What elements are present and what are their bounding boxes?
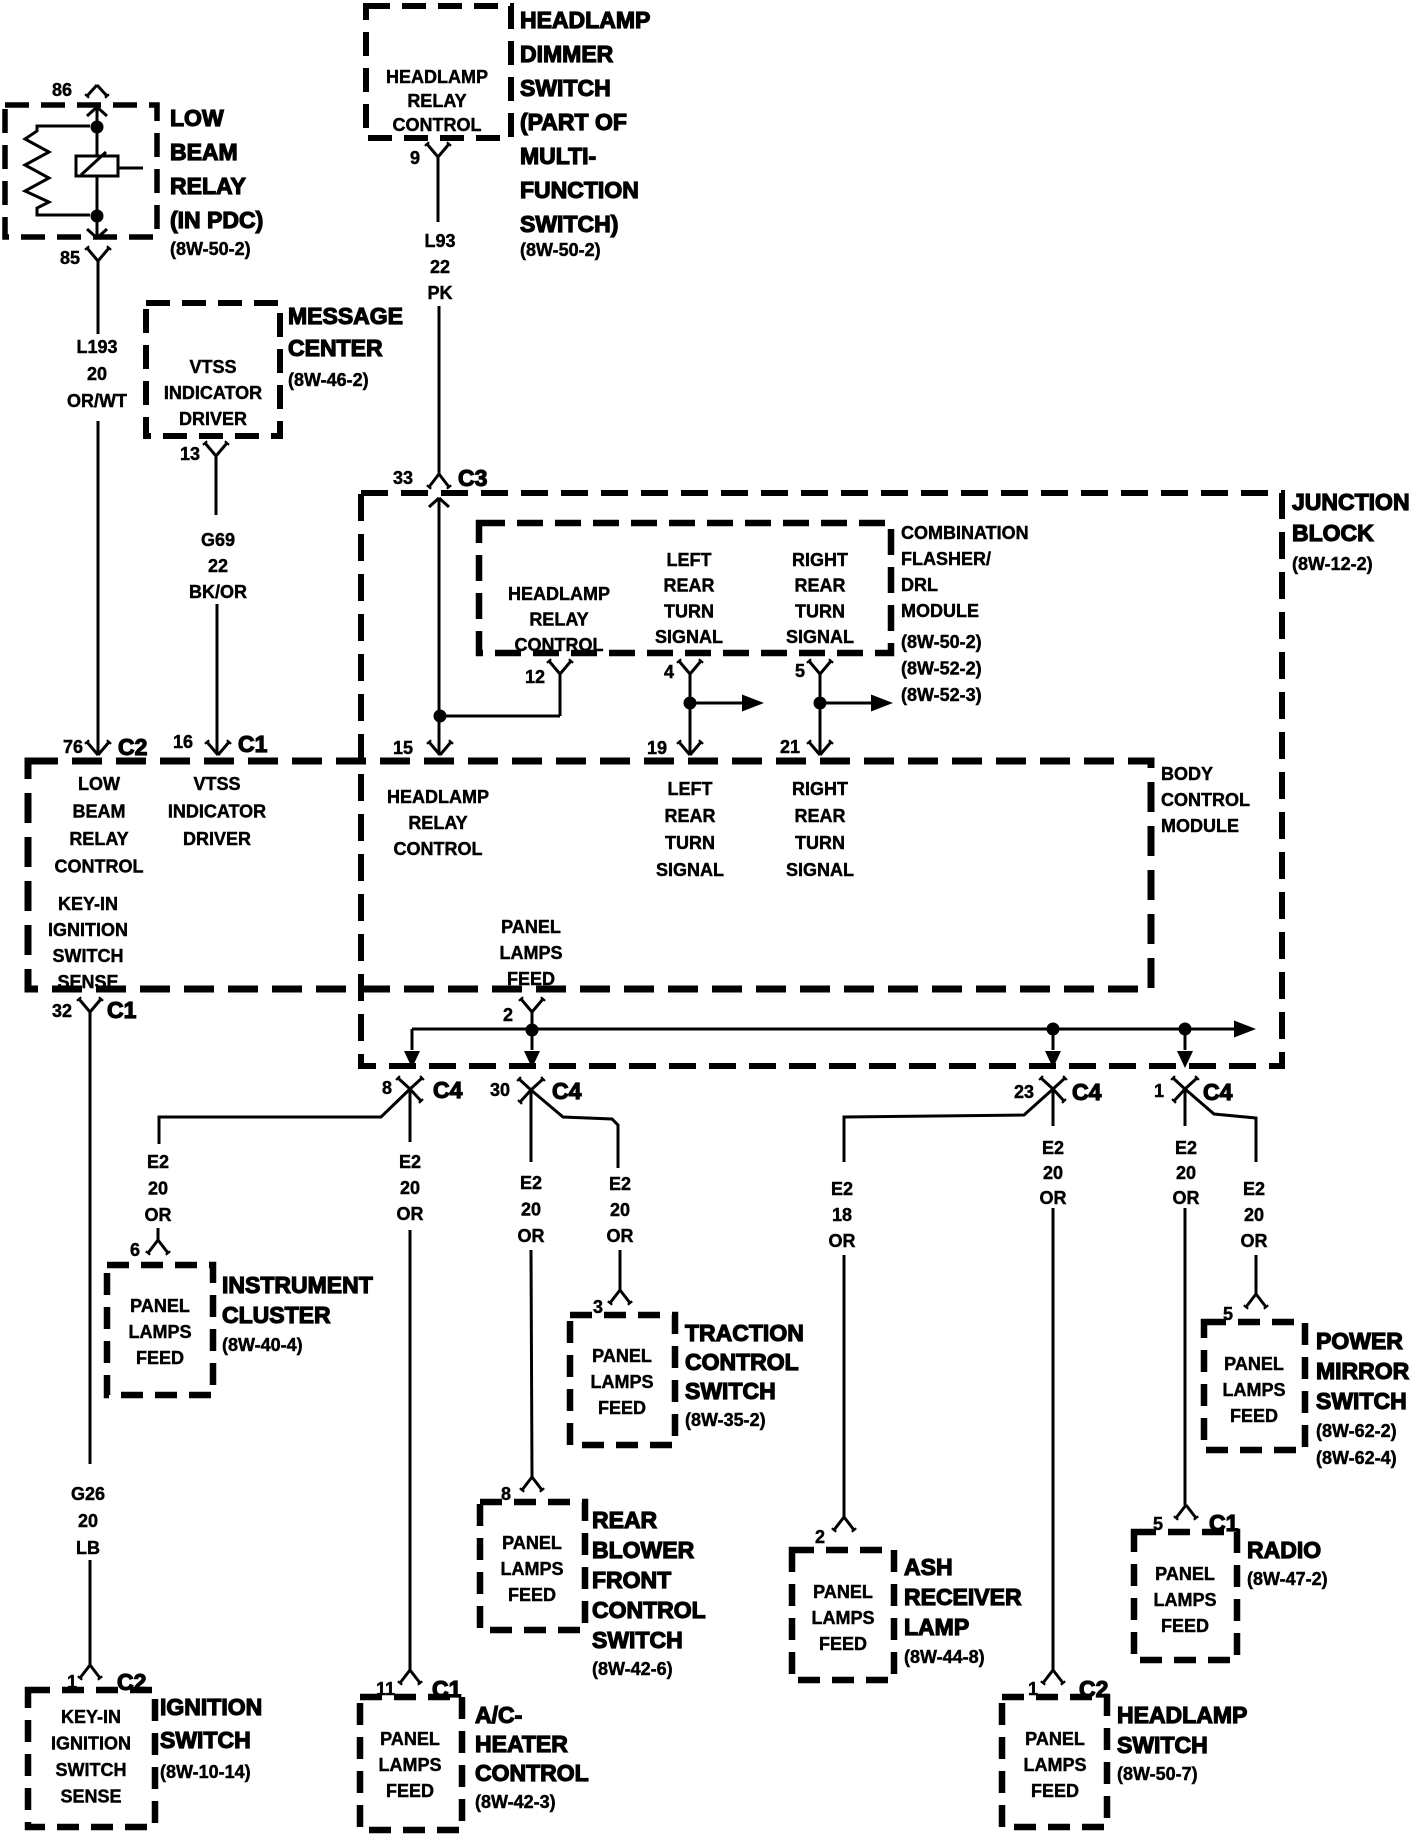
- connector 23 C4: [1041, 1078, 1053, 1089]
- svg-text:LAMPS: LAMPS: [1223, 1380, 1286, 1400]
- wire to BCM pin 15: [438, 498, 441, 753]
- svg-text:OR: OR: [1241, 1231, 1268, 1251]
- wire pin5 to pin 21: [819, 674, 822, 753]
- svg-text:32: 32: [52, 1001, 72, 1021]
- svg-text:19: 19: [647, 738, 667, 758]
- svg-text:LAMPS: LAMPS: [501, 1559, 564, 1579]
- key-in ignition switch sense box: [28, 1690, 155, 1827]
- svg-text:(8W-50-2): (8W-50-2): [520, 240, 601, 260]
- wire G26: [89, 1012, 92, 1464]
- svg-text:DIMMER: DIMMER: [520, 41, 614, 67]
- svg-text:OR: OR: [1173, 1188, 1200, 1208]
- low beam relay box: [5, 105, 157, 237]
- svg-text:RELAY: RELAY: [529, 610, 588, 630]
- svg-text:FEED: FEED: [508, 1585, 556, 1605]
- svg-text:BODY: BODY: [1161, 764, 1213, 784]
- svg-text:8: 8: [382, 1078, 392, 1098]
- svg-text:LAMPS: LAMPS: [500, 943, 563, 963]
- svg-text:VTSS: VTSS: [189, 357, 236, 377]
- connector 8 fork (rear blower): [522, 1477, 532, 1490]
- pin 21 connector: [809, 742, 820, 755]
- connector 86 chevron: [87, 85, 97, 96]
- svg-text:20: 20: [1043, 1163, 1063, 1183]
- svg-text:SWITCH: SWITCH: [53, 946, 124, 966]
- svg-text:(8W-50-2): (8W-50-2): [901, 632, 982, 652]
- panel lamps feed bus wire: [531, 1012, 534, 1050]
- svg-text:LOW: LOW: [78, 774, 120, 794]
- svg-text:LAMPS: LAMPS: [1024, 1755, 1087, 1775]
- wire pin4 to pin 19: [689, 674, 692, 753]
- connector 12 fork: [549, 661, 560, 674]
- arrow into relay (pin 86): [87, 107, 97, 116]
- svg-text:DRIVER: DRIVER: [179, 409, 247, 429]
- svg-text:LEFT: LEFT: [667, 550, 712, 570]
- connector C3 fork: [429, 474, 439, 487]
- svg-text:16: 16: [173, 732, 193, 752]
- svg-text:SIGNAL: SIGNAL: [786, 860, 854, 880]
- svg-text:(8W-42-6): (8W-42-6): [592, 1659, 673, 1679]
- svg-text:SWITCH: SWITCH: [56, 1760, 127, 1780]
- connector 30 C4: [519, 1079, 531, 1090]
- svg-text:LAMPS: LAMPS: [591, 1372, 654, 1392]
- svg-text:RELAY: RELAY: [69, 829, 128, 849]
- svg-text:23: 23: [1014, 1082, 1034, 1102]
- pin 16 connector: [207, 742, 218, 755]
- svg-text:LEFT: LEFT: [668, 779, 713, 799]
- svg-text:HEADLAMP: HEADLAMP: [520, 7, 650, 33]
- svg-text:PANEL: PANEL: [1025, 1729, 1085, 1749]
- wire L93: [437, 157, 440, 222]
- junction dot: [434, 710, 447, 723]
- svg-text:E2: E2: [520, 1173, 542, 1193]
- svg-text:MULTI-: MULTI-: [520, 143, 596, 169]
- svg-text:(8W-50-7): (8W-50-7): [1117, 1764, 1198, 1784]
- pin 5 connector: [809, 661, 820, 674]
- svg-text:4: 4: [664, 662, 674, 682]
- svg-text:OR: OR: [518, 1226, 545, 1246]
- svg-text:ASH: ASH: [904, 1554, 953, 1580]
- svg-text:(8W-62-2): (8W-62-2): [1316, 1421, 1397, 1441]
- svg-text:RADIO: RADIO: [1247, 1537, 1321, 1563]
- svg-text:RELAY: RELAY: [408, 813, 467, 833]
- svg-text:DRIVER: DRIVER: [183, 829, 251, 849]
- svg-text:OR: OR: [397, 1204, 424, 1224]
- svg-text:85: 85: [60, 248, 80, 268]
- wire G69: [215, 456, 218, 515]
- svg-text:3: 3: [593, 1297, 603, 1317]
- svg-text:INDICATOR: INDICATOR: [164, 383, 262, 403]
- svg-text:LAMPS: LAMPS: [379, 1755, 442, 1775]
- svg-text:12: 12: [525, 667, 545, 687]
- svg-text:20: 20: [610, 1200, 630, 1220]
- svg-text:(8W-40-4): (8W-40-4): [222, 1335, 303, 1355]
- connector 1 C2 fork: [80, 1665, 90, 1678]
- junction block box: [361, 493, 1282, 1066]
- svg-text:HEADLAMP: HEADLAMP: [1117, 1702, 1247, 1728]
- svg-text:86: 86: [52, 80, 72, 100]
- svg-text:SIGNAL: SIGNAL: [786, 627, 854, 647]
- svg-text:L193: L193: [76, 337, 117, 357]
- svg-text:E2: E2: [609, 1174, 631, 1194]
- svg-text:13: 13: [180, 444, 200, 464]
- svg-text:SWITCH): SWITCH): [520, 211, 618, 237]
- pin 19 connector: [679, 742, 690, 755]
- svg-text:E2: E2: [1175, 1138, 1197, 1158]
- arrow out of relay (pin 85): [96, 222, 99, 238]
- svg-text:E2: E2: [1243, 1179, 1265, 1199]
- svg-text:6: 6: [130, 1240, 140, 1260]
- svg-text:PANEL: PANEL: [130, 1296, 190, 1316]
- arrow into junction block: [429, 498, 439, 507]
- arrow right rear turn signal feed: [820, 702, 871, 705]
- svg-text:PANEL: PANEL: [813, 1582, 873, 1602]
- svg-text:TURN: TURN: [795, 833, 845, 853]
- svg-text:76: 76: [63, 737, 83, 757]
- svg-text:(8W-44-8): (8W-44-8): [904, 1647, 985, 1667]
- svg-text:TURN: TURN: [795, 601, 845, 621]
- wire E2 to rear blower: [530, 1090, 533, 1162]
- svg-text:MODULE: MODULE: [901, 601, 979, 621]
- svg-text:BK/OR: BK/OR: [189, 582, 247, 602]
- connector 1 C2 fork (headlamp switch): [1043, 1670, 1053, 1683]
- pin 76 connector: [87, 742, 98, 755]
- svg-text:20: 20: [78, 1511, 98, 1531]
- svg-text:LAMP: LAMP: [904, 1614, 969, 1640]
- svg-text:HEADLAMP: HEADLAMP: [386, 67, 488, 87]
- connector 5 C1 fork (radio): [1176, 1505, 1186, 1518]
- svg-text:OR: OR: [1040, 1188, 1067, 1208]
- svg-text:G26: G26: [71, 1484, 105, 1504]
- svg-text:RIGHT: RIGHT: [792, 779, 848, 799]
- svg-text:C1: C1: [107, 997, 137, 1023]
- svg-text:KEY-IN: KEY-IN: [58, 894, 118, 914]
- svg-text:(8W-47-2): (8W-47-2): [1247, 1569, 1328, 1589]
- svg-text:15: 15: [393, 738, 413, 758]
- a/c heater panel lamps feed box: [360, 1697, 462, 1830]
- svg-text:FEED: FEED: [1161, 1616, 1209, 1636]
- svg-text:SWITCH: SWITCH: [592, 1627, 683, 1653]
- wire to instrument cluster: [159, 1089, 410, 1144]
- connector 3 fork: [610, 1290, 620, 1303]
- svg-text:LAMPS: LAMPS: [1154, 1590, 1217, 1610]
- pin 2 connector: [521, 999, 532, 1012]
- svg-text:FEED: FEED: [1230, 1406, 1278, 1426]
- traction control panel lamps feed box: [570, 1315, 675, 1445]
- svg-text:A/C-: A/C-: [475, 1702, 522, 1728]
- svg-text:L93: L93: [424, 231, 455, 251]
- svg-text:(8W-62-4): (8W-62-4): [1316, 1448, 1397, 1468]
- svg-text:E2: E2: [1042, 1138, 1064, 1158]
- svg-text:OR: OR: [829, 1231, 856, 1251]
- svg-text:IGNITION: IGNITION: [160, 1694, 262, 1720]
- svg-text:(PART OF: (PART OF: [520, 109, 627, 135]
- svg-text:PANEL: PANEL: [501, 917, 561, 937]
- node dot lower: [91, 210, 104, 223]
- connector 85 fork: [87, 248, 98, 261]
- svg-text:CONTROL: CONTROL: [515, 635, 604, 655]
- svg-text:SENSE: SENSE: [57, 972, 118, 992]
- svg-text:BEAM: BEAM: [170, 139, 238, 165]
- svg-text:TRACTION: TRACTION: [685, 1320, 804, 1346]
- svg-text:2: 2: [503, 1005, 513, 1025]
- svg-text:(8W-52-2): (8W-52-2): [901, 659, 982, 679]
- svg-text:E2: E2: [147, 1152, 169, 1172]
- svg-text:FRONT: FRONT: [592, 1567, 671, 1593]
- rear blower panel lamps feed box: [480, 1502, 585, 1630]
- svg-text:MODULE: MODULE: [1161, 816, 1239, 836]
- svg-text:OR: OR: [607, 1226, 634, 1246]
- svg-text:REAR: REAR: [663, 576, 714, 596]
- connector 13 fork: [205, 443, 216, 456]
- svg-text:C4: C4: [433, 1077, 463, 1103]
- svg-text:(8W-12-2): (8W-12-2): [1292, 554, 1373, 574]
- svg-text:PANEL: PANEL: [380, 1729, 440, 1749]
- svg-text:(8W-50-2): (8W-50-2): [170, 239, 251, 259]
- resistor (relay shunt): [25, 126, 90, 215]
- svg-text:E2: E2: [399, 1152, 421, 1172]
- svg-text:FEED: FEED: [819, 1634, 867, 1654]
- svg-text:22: 22: [430, 257, 450, 277]
- svg-text:C4: C4: [1203, 1079, 1233, 1105]
- wire: [96, 133, 99, 156]
- svg-text:BEAM: BEAM: [73, 802, 126, 822]
- headlamp dimmer switch box: [366, 6, 511, 138]
- svg-text:CONTROL: CONTROL: [592, 1597, 706, 1623]
- power mirror panel lamps feed box: [1204, 1322, 1305, 1450]
- svg-text:CENTER: CENTER: [288, 335, 383, 361]
- svg-text:REAR: REAR: [664, 806, 715, 826]
- svg-text:POWER: POWER: [1316, 1328, 1403, 1354]
- svg-text:CONTROL: CONTROL: [55, 857, 144, 877]
- svg-text:RIGHT: RIGHT: [792, 550, 848, 570]
- wire E2 to radio: [1184, 1089, 1187, 1126]
- svg-text:C3: C3: [458, 465, 487, 491]
- svg-text:CONTROL: CONTROL: [393, 115, 482, 135]
- headlamp switch panel lamps feed box: [1002, 1697, 1107, 1827]
- instrument cluster panel lamps feed box: [107, 1265, 213, 1395]
- svg-text:SWITCH: SWITCH: [1117, 1732, 1208, 1758]
- wire L193: [97, 261, 100, 334]
- svg-text:CONTROL: CONTROL: [685, 1349, 799, 1375]
- svg-text:(8W-52-3): (8W-52-3): [901, 685, 982, 705]
- svg-text:20: 20: [87, 364, 107, 384]
- svg-text:MESSAGE: MESSAGE: [288, 303, 403, 329]
- svg-text:PANEL: PANEL: [1155, 1564, 1215, 1584]
- svg-text:20: 20: [1176, 1163, 1196, 1183]
- svg-text:HEADLAMP: HEADLAMP: [387, 787, 489, 807]
- connector 1 C4: [1173, 1078, 1185, 1089]
- radio panel lamps feed box: [1134, 1532, 1237, 1660]
- connector 6 fork: [148, 1240, 158, 1253]
- svg-text:REAR: REAR: [794, 806, 845, 826]
- wire E2 to power mirror: [1185, 1089, 1256, 1162]
- svg-text:MIRROR: MIRROR: [1316, 1358, 1410, 1384]
- svg-text:TURN: TURN: [664, 601, 714, 621]
- svg-text:LAMPS: LAMPS: [812, 1608, 875, 1628]
- svg-text:INDICATOR: INDICATOR: [168, 802, 266, 822]
- svg-text:SWITCH: SWITCH: [160, 1727, 251, 1753]
- svg-text:E2: E2: [831, 1179, 853, 1199]
- svg-text:C2: C2: [118, 734, 147, 760]
- connector 2 fork (ash): [834, 1517, 844, 1530]
- pin 4 connector: [679, 661, 690, 674]
- svg-text:G69: G69: [201, 530, 235, 550]
- svg-text:OR/WT: OR/WT: [67, 391, 127, 411]
- svg-text:FEED: FEED: [598, 1398, 646, 1418]
- svg-text:REAR: REAR: [794, 576, 845, 596]
- svg-text:RELAY: RELAY: [170, 173, 246, 199]
- svg-text:DRL: DRL: [901, 575, 938, 595]
- svg-text:(8W-35-2): (8W-35-2): [685, 1410, 766, 1430]
- svg-text:2: 2: [815, 1527, 825, 1547]
- svg-text:SIGNAL: SIGNAL: [656, 860, 724, 880]
- svg-text:SWITCH: SWITCH: [685, 1378, 776, 1404]
- svg-text:VTSS: VTSS: [193, 774, 240, 794]
- svg-text:IGNITION: IGNITION: [48, 920, 128, 940]
- wire to pin 12: [440, 715, 560, 718]
- svg-text:SWITCH: SWITCH: [1316, 1388, 1407, 1414]
- svg-text:LAMPS: LAMPS: [129, 1322, 192, 1342]
- svg-text:5: 5: [795, 661, 805, 681]
- svg-text:(IN PDC): (IN PDC): [170, 207, 263, 233]
- combination flasher / drl module box: [479, 523, 891, 653]
- svg-text:HEADLAMP: HEADLAMP: [508, 584, 610, 604]
- svg-text:CONTROL: CONTROL: [394, 839, 483, 859]
- arrow left rear turn signal feed: [690, 702, 742, 705]
- svg-text:33: 33: [393, 468, 413, 488]
- pin 32 connector: [79, 999, 90, 1012]
- svg-text:SIGNAL: SIGNAL: [655, 627, 723, 647]
- svg-text:FUNCTION: FUNCTION: [520, 177, 639, 203]
- svg-text:8: 8: [501, 1484, 511, 1504]
- svg-text:22: 22: [208, 556, 228, 576]
- svg-text:CLUSTER: CLUSTER: [222, 1302, 331, 1328]
- svg-text:(8W-46-2): (8W-46-2): [288, 370, 369, 390]
- svg-text:OR: OR: [145, 1205, 172, 1225]
- svg-text:9: 9: [410, 148, 420, 168]
- svg-text:C4: C4: [1072, 1079, 1102, 1105]
- svg-text:PANEL: PANEL: [502, 1533, 562, 1553]
- ash receiver panel lamps feed box: [792, 1550, 894, 1680]
- svg-text:PANEL: PANEL: [1224, 1354, 1284, 1374]
- wire E2 to traction control: [531, 1090, 618, 1168]
- svg-text:INSTRUMENT: INSTRUMENT: [222, 1272, 373, 1298]
- svg-text:SENSE: SENSE: [60, 1787, 121, 1807]
- connector 11 C1 fork: [400, 1670, 410, 1683]
- relay coil K1: [76, 156, 118, 176]
- connector 8 C4: [398, 1078, 410, 1089]
- svg-text:JUNCTION: JUNCTION: [1292, 489, 1410, 515]
- svg-text:21: 21: [780, 737, 800, 757]
- svg-text:20: 20: [521, 1200, 541, 1220]
- svg-text:FEED: FEED: [136, 1348, 184, 1368]
- svg-text:C1: C1: [238, 731, 268, 757]
- svg-text:REAR: REAR: [592, 1507, 658, 1533]
- vtss indicator driver box: [146, 303, 280, 436]
- svg-text:1: 1: [1154, 1081, 1164, 1101]
- pin 15 connector: [429, 742, 440, 755]
- svg-text:LB: LB: [76, 1538, 100, 1558]
- wire E2 to a/c heater: [409, 1089, 412, 1142]
- svg-text:HEATER: HEATER: [475, 1731, 568, 1757]
- svg-text:COMBINATION: COMBINATION: [901, 523, 1029, 543]
- svg-text:(8W-10-14): (8W-10-14): [160, 1762, 251, 1782]
- svg-text:20: 20: [148, 1179, 168, 1199]
- svg-text:30: 30: [490, 1080, 510, 1100]
- svg-text:RELAY: RELAY: [407, 91, 466, 111]
- connector 9 fork: [427, 144, 438, 157]
- wire: [96, 176, 99, 210]
- svg-text:PANEL: PANEL: [592, 1346, 652, 1366]
- svg-text:SWITCH: SWITCH: [520, 75, 611, 101]
- svg-text:LOW: LOW: [170, 105, 224, 131]
- svg-text:FEED: FEED: [507, 969, 555, 989]
- svg-text:CONTROL: CONTROL: [1161, 790, 1250, 810]
- svg-text:20: 20: [1244, 1205, 1264, 1225]
- svg-text:CONTROL: CONTROL: [475, 1760, 589, 1786]
- svg-text:FLASHER/: FLASHER/: [901, 549, 991, 569]
- svg-text:RECEIVER: RECEIVER: [904, 1584, 1022, 1610]
- svg-text:TURN: TURN: [665, 833, 715, 853]
- body control module box: [28, 761, 1151, 989]
- svg-text:BLOCK: BLOCK: [1292, 520, 1374, 546]
- svg-text:(8W-42-3): (8W-42-3): [475, 1792, 556, 1812]
- connector 5 fork (power mirror): [1246, 1294, 1256, 1307]
- node dot upper: [91, 121, 104, 134]
- svg-text:C4: C4: [552, 1078, 582, 1104]
- svg-text:FEED: FEED: [1031, 1781, 1079, 1801]
- svg-text:KEY-IN: KEY-IN: [61, 1707, 121, 1727]
- wire E2 to ash receiver: [844, 1089, 1053, 1162]
- svg-text:FEED: FEED: [386, 1781, 434, 1801]
- wire E2 to headlamp switch: [1052, 1089, 1055, 1126]
- svg-text:IGNITION: IGNITION: [51, 1734, 131, 1754]
- svg-text:BLOWER: BLOWER: [592, 1537, 695, 1563]
- svg-text:18: 18: [832, 1205, 852, 1225]
- svg-text:PK: PK: [427, 283, 452, 303]
- svg-text:20: 20: [400, 1178, 420, 1198]
